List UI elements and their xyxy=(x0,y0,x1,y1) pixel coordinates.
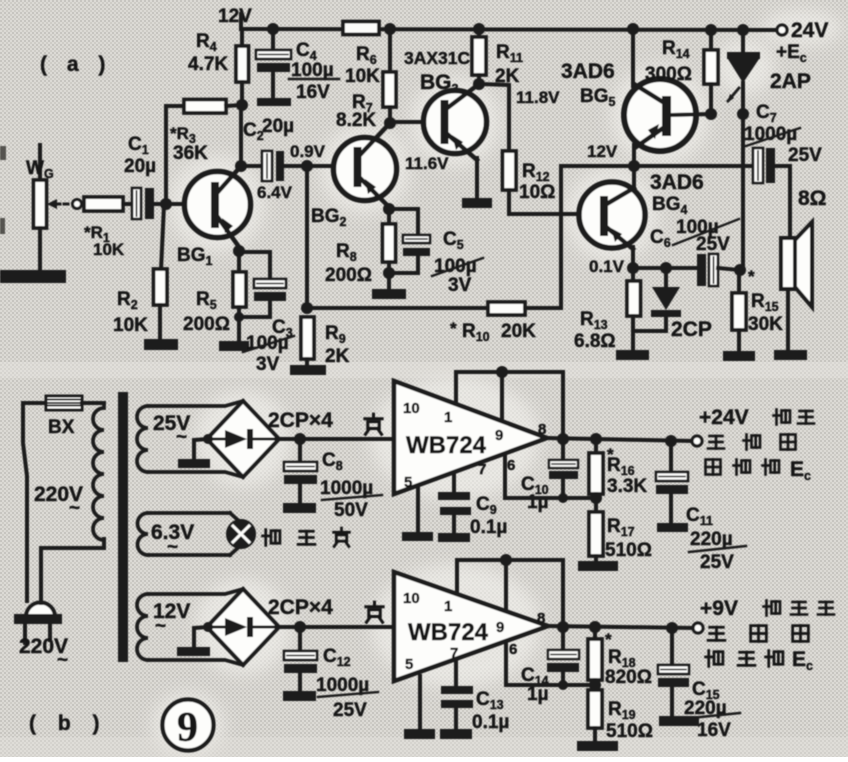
capacitor C3 xyxy=(239,252,294,375)
resistor R9 xyxy=(301,317,350,367)
svg-text:0.9V: 0.9V xyxy=(290,142,326,161)
transistor BG3 xyxy=(424,84,487,160)
ground C12 xyxy=(283,691,316,701)
label 3AD6 BG5 xyxy=(561,60,616,109)
label case2 xyxy=(366,602,383,622)
svg-text:2CP×4: 2CP×4 xyxy=(268,596,333,619)
svg-text:7: 7 xyxy=(478,461,486,478)
svg-text:300Ω: 300Ω xyxy=(645,64,692,85)
svg-text:20K: 20K xyxy=(501,321,536,342)
svg-text:( a ): ( a ) xyxy=(40,53,112,76)
ground C15 xyxy=(659,716,699,726)
capacitor C6 xyxy=(633,217,739,286)
svg-text:2AP: 2AP xyxy=(770,70,811,93)
capacitor C8 xyxy=(284,439,382,521)
IC WB724 #1 xyxy=(394,381,547,494)
node emitter BG2 xyxy=(383,203,395,215)
resistor R4 xyxy=(188,29,249,105)
svg-text:25V: 25V xyxy=(788,145,822,166)
svg-text:200Ω: 200Ω xyxy=(183,314,230,335)
svg-text:*: * xyxy=(748,267,755,286)
capacitor C7 xyxy=(744,102,822,183)
capacitor C10 xyxy=(521,439,578,513)
ground R2 xyxy=(144,339,178,350)
svg-text:~: ~ xyxy=(69,498,80,519)
wire BG2 base xyxy=(301,160,355,172)
ground C9 xyxy=(438,533,470,542)
ground pin5 IC2 xyxy=(404,676,435,739)
svg-text:8Ω: 8Ω xyxy=(798,187,827,210)
svg-text:3AD6: 3AD6 xyxy=(650,171,704,194)
svg-text:25V: 25V xyxy=(696,234,730,255)
resistor R19 xyxy=(588,685,653,742)
svg-text:10K: 10K xyxy=(113,315,148,336)
resistor R15 xyxy=(732,267,783,352)
wire BG3 base xyxy=(390,120,425,124)
svg-text:25V: 25V xyxy=(333,700,367,721)
resistor R10 feedback xyxy=(307,166,561,344)
node +24V terminal xyxy=(692,436,702,446)
svg-text:12V: 12V xyxy=(218,6,252,27)
svg-text:1: 1 xyxy=(444,598,452,615)
capacitor C9 xyxy=(438,473,507,538)
svg-text:220µ: 220µ xyxy=(690,529,733,550)
edge smudge xyxy=(0,146,6,234)
svg-text:200Ω: 200Ω xyxy=(325,265,372,286)
svg-text:3AX31C: 3AX31C xyxy=(404,48,471,68)
ground R5 xyxy=(219,341,249,351)
svg-text:9: 9 xyxy=(177,705,198,751)
svg-text:8.2K: 8.2K xyxy=(336,110,376,131)
wire bridge1 out xyxy=(279,433,394,445)
wire 12V stub xyxy=(239,14,243,29)
node emitter BG1 xyxy=(233,245,245,257)
diode 2CP xyxy=(634,268,712,341)
potentiometer WG xyxy=(26,145,57,271)
svg-text:820Ω: 820Ω xyxy=(605,667,652,688)
lamp indicator xyxy=(228,513,350,555)
svg-text:~: ~ xyxy=(176,427,187,448)
ground R17 xyxy=(578,561,618,571)
svg-text:510Ω: 510Ω xyxy=(606,721,653,742)
svg-text:4.7K: 4.7K xyxy=(188,54,228,75)
wire IC1 output xyxy=(547,433,692,447)
svg-text:16V: 16V xyxy=(697,720,731,741)
node 24V terminal xyxy=(776,19,828,65)
capacitor C15 xyxy=(658,628,740,741)
label +24V output xyxy=(699,406,814,483)
resistor R16 xyxy=(589,439,647,498)
bridge rectifier 1 xyxy=(203,401,333,477)
label 3AD6 BG4 xyxy=(650,171,704,217)
resistor R18 xyxy=(588,627,652,688)
svg-text:1µ: 1µ xyxy=(527,684,549,705)
label (b) xyxy=(29,712,107,735)
svg-text:2K: 2K xyxy=(325,346,350,367)
svg-text:2CP×4: 2CP×4 xyxy=(268,409,333,432)
wire +V top rail xyxy=(241,23,780,36)
resistor R17 xyxy=(589,498,652,562)
svg-text:11.8V: 11.8V xyxy=(516,88,560,107)
wire BG4 collector xyxy=(632,166,636,190)
node 12V label xyxy=(218,6,252,27)
resistor R2 xyxy=(113,205,167,340)
transformer core xyxy=(118,392,128,662)
node base BG1 xyxy=(160,198,172,210)
ground R9 xyxy=(290,365,326,375)
ground C8 xyxy=(283,503,316,513)
label 12V node xyxy=(587,142,618,161)
svg-text:6: 6 xyxy=(507,457,515,474)
wire collector node BG1 xyxy=(235,99,248,172)
svg-text:25V: 25V xyxy=(700,552,734,573)
svg-text:8: 8 xyxy=(537,610,545,627)
wire IC1 top loop xyxy=(456,366,563,439)
label case1 xyxy=(365,414,382,434)
svg-text:9: 9 xyxy=(496,619,504,636)
svg-text:+9V: +9V xyxy=(700,597,738,620)
ground bridge2 xyxy=(177,627,210,656)
wire wiper dashed xyxy=(56,203,72,206)
resistor R8 xyxy=(325,209,396,290)
ground R15 xyxy=(723,351,755,361)
svg-text:11.6V: 11.6V xyxy=(405,154,449,173)
transistor BG4 xyxy=(579,182,645,276)
svg-text:0.1µ: 0.1µ xyxy=(472,712,509,733)
resistor R12 xyxy=(479,84,560,214)
svg-text:20µ: 20µ xyxy=(262,116,294,137)
svg-text:2CP: 2CP xyxy=(671,318,712,341)
svg-text:10Ω: 10Ω xyxy=(519,182,555,203)
svg-text:16V: 16V xyxy=(296,82,330,103)
wire IC2 top loop xyxy=(457,554,563,627)
label +9V output xyxy=(700,597,834,673)
svg-text:( b ): ( b ) xyxy=(29,712,107,735)
wire BG5 collector xyxy=(631,29,635,86)
svg-text:WB724: WB724 xyxy=(408,619,489,646)
wire pin6 net2 xyxy=(506,643,601,691)
capacitor C14 xyxy=(521,627,579,705)
ground R8 xyxy=(372,289,406,299)
diode 2AP xyxy=(727,30,811,120)
wire BG3 emitter xyxy=(475,158,479,199)
svg-text:*: * xyxy=(450,319,457,338)
transistor BG5 xyxy=(624,79,711,151)
ground C11 xyxy=(657,523,688,532)
svg-text:0.1µ: 0.1µ xyxy=(470,517,507,538)
svg-text:12V: 12V xyxy=(587,142,618,161)
svg-text:+24V: +24V xyxy=(699,406,749,429)
winding 25V xyxy=(137,401,243,477)
wire BG4 base xyxy=(509,212,581,216)
capacitor C11 xyxy=(656,441,746,573)
resistor R5 xyxy=(183,251,246,341)
svg-text:10K: 10K xyxy=(345,66,380,87)
label (a) xyxy=(40,53,112,76)
svg-text:8: 8 xyxy=(538,421,546,438)
svg-text:24V: 24V xyxy=(791,19,828,42)
ground speaker xyxy=(774,350,807,360)
svg-text:5: 5 xyxy=(404,474,412,491)
svg-text:6: 6 xyxy=(509,641,517,658)
wire feedback riser xyxy=(301,166,313,314)
wire R3 left leg xyxy=(164,106,168,205)
transistor BG2 xyxy=(311,123,449,229)
resistor R13 xyxy=(574,268,641,352)
wire IC2 output xyxy=(548,621,694,634)
ground C13 xyxy=(440,729,472,739)
capacitor C4 xyxy=(256,29,339,106)
plug 220V xyxy=(14,603,68,672)
capacitor C13 xyxy=(441,660,509,733)
resistor R3 xyxy=(166,100,242,165)
svg-text:1000µ: 1000µ xyxy=(744,124,797,145)
svg-text:6.4V: 6.4V xyxy=(257,183,293,202)
svg-text:36K: 36K xyxy=(173,143,208,164)
svg-text:WB724: WB724 xyxy=(406,432,487,459)
svg-text:3.3K: 3.3K xyxy=(607,476,647,497)
figure number 9 xyxy=(163,700,214,752)
svg-text:0.1V: 0.1V xyxy=(589,257,625,276)
svg-text:50V: 50V xyxy=(334,500,368,521)
svg-text:3AD6: 3AD6 xyxy=(561,60,615,83)
resistor R7 xyxy=(336,29,396,131)
ground BG3 xyxy=(462,198,492,208)
node input circle xyxy=(73,200,82,209)
ground WG xyxy=(0,270,66,283)
lamp winding 6.3V xyxy=(138,513,231,558)
capacitor C2 xyxy=(241,116,326,202)
resistor R6 xyxy=(343,22,380,88)
svg-text:3V: 3V xyxy=(448,275,472,296)
resistor R1 xyxy=(84,197,133,259)
wire output line xyxy=(561,160,754,172)
ground R13 xyxy=(616,350,649,360)
ground R19 xyxy=(577,741,618,751)
switch wire left xyxy=(23,403,27,601)
resistor R14 xyxy=(645,30,718,120)
label 3AX31C BG3 xyxy=(404,48,471,96)
wire BG4 emitter node xyxy=(627,247,639,274)
svg-text:30K: 30K xyxy=(748,314,783,335)
svg-text:510Ω: 510Ω xyxy=(605,540,652,561)
ground bridge1 xyxy=(178,439,210,468)
capacitor C5 xyxy=(389,209,483,296)
node +9V terminal xyxy=(693,623,703,633)
wire bridge2 out xyxy=(279,621,394,633)
capacitor C1 xyxy=(124,134,185,219)
winding 12V xyxy=(137,589,243,665)
svg-text:~: ~ xyxy=(57,650,68,671)
svg-text:1µ: 1µ xyxy=(527,492,549,513)
wire pin6 net1 xyxy=(505,454,602,504)
svg-text:5: 5 xyxy=(405,656,413,673)
svg-text:9: 9 xyxy=(495,427,503,444)
svg-text:~: ~ xyxy=(167,537,178,558)
svg-text:10: 10 xyxy=(403,590,420,607)
svg-text:BX: BX xyxy=(48,417,75,438)
svg-text:10K: 10K xyxy=(93,240,125,259)
transistor BG1 xyxy=(177,166,251,268)
wire diode to C6 node xyxy=(741,114,745,270)
resistor R11 xyxy=(472,29,523,90)
svg-text:~: ~ xyxy=(155,616,166,637)
IC WB724 #2 xyxy=(394,572,548,681)
svg-text:3V: 3V xyxy=(256,354,280,375)
transformer primary xyxy=(34,403,104,540)
svg-text:6.8Ω: 6.8Ω xyxy=(574,331,616,352)
speaker 8ohm xyxy=(781,166,827,351)
svg-text:10: 10 xyxy=(403,400,420,417)
svg-text:20µ: 20µ xyxy=(124,156,156,177)
bridge rectifier 2 xyxy=(203,589,333,665)
node C6 R15 xyxy=(734,264,746,276)
capacitor C12 xyxy=(284,627,378,721)
fuse BX xyxy=(23,396,104,438)
svg-text:1: 1 xyxy=(444,409,452,426)
wire BG5 emitter xyxy=(632,145,636,166)
ground pin5 IC1 xyxy=(402,487,433,541)
wire primary bottom xyxy=(41,539,104,603)
